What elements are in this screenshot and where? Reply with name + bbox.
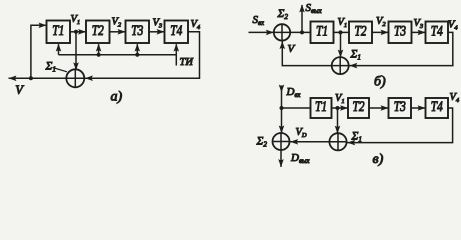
svg-text:V1: V1	[335, 93, 345, 105]
svg-text:Sвых: Sвых	[306, 2, 322, 15]
svg-text:ТИ: ТИ	[180, 57, 195, 68]
svg-text:Т1: Т1	[52, 23, 64, 39]
svg-text:Т3: Т3	[394, 23, 406, 39]
svg-text:в): в)	[373, 152, 384, 167]
svg-text:V1: V1	[338, 17, 348, 29]
svg-text:V3: V3	[414, 18, 424, 30]
svg-text:V1: V1	[71, 14, 81, 26]
svg-text:Т4: Т4	[431, 23, 443, 39]
svg-text:Т1: Т1	[315, 99, 327, 115]
svg-text:Т2: Т2	[355, 23, 367, 39]
svg-text:V4: V4	[450, 92, 460, 104]
svg-text:Т4: Т4	[170, 23, 182, 39]
svg-text:Σ1: Σ1	[351, 131, 362, 144]
svg-text:Sвх: Sвх	[253, 14, 264, 27]
svg-text:б): б)	[374, 75, 386, 90]
svg-text:VD: VD	[296, 127, 307, 139]
svg-text:Т2: Т2	[353, 99, 365, 115]
svg-text:V2: V2	[112, 17, 122, 29]
svg-text:Dвх: Dвх	[286, 86, 301, 99]
svg-text:Т1: Т1	[316, 23, 328, 39]
svg-text:Т3: Т3	[394, 99, 406, 115]
svg-text:V4: V4	[191, 19, 201, 31]
svg-text:V: V	[288, 43, 296, 55]
svg-text:V4: V4	[448, 20, 458, 32]
svg-text:V2: V2	[376, 16, 386, 28]
svg-text:Σ1: Σ1	[45, 61, 56, 74]
svg-text:Т2: Т2	[92, 23, 104, 39]
svg-text:Dвых: Dвых	[290, 152, 310, 165]
svg-text:Т3: Т3	[131, 23, 143, 39]
svg-text:Σ2: Σ2	[256, 136, 268, 149]
svg-text:Σ2: Σ2	[277, 8, 289, 21]
svg-text:Т4: Т4	[431, 99, 443, 115]
svg-text:Σ1: Σ1	[350, 49, 361, 62]
svg-text:а): а)	[111, 90, 123, 105]
svg-text:V3: V3	[153, 18, 163, 30]
svg-text:V: V	[15, 83, 24, 97]
